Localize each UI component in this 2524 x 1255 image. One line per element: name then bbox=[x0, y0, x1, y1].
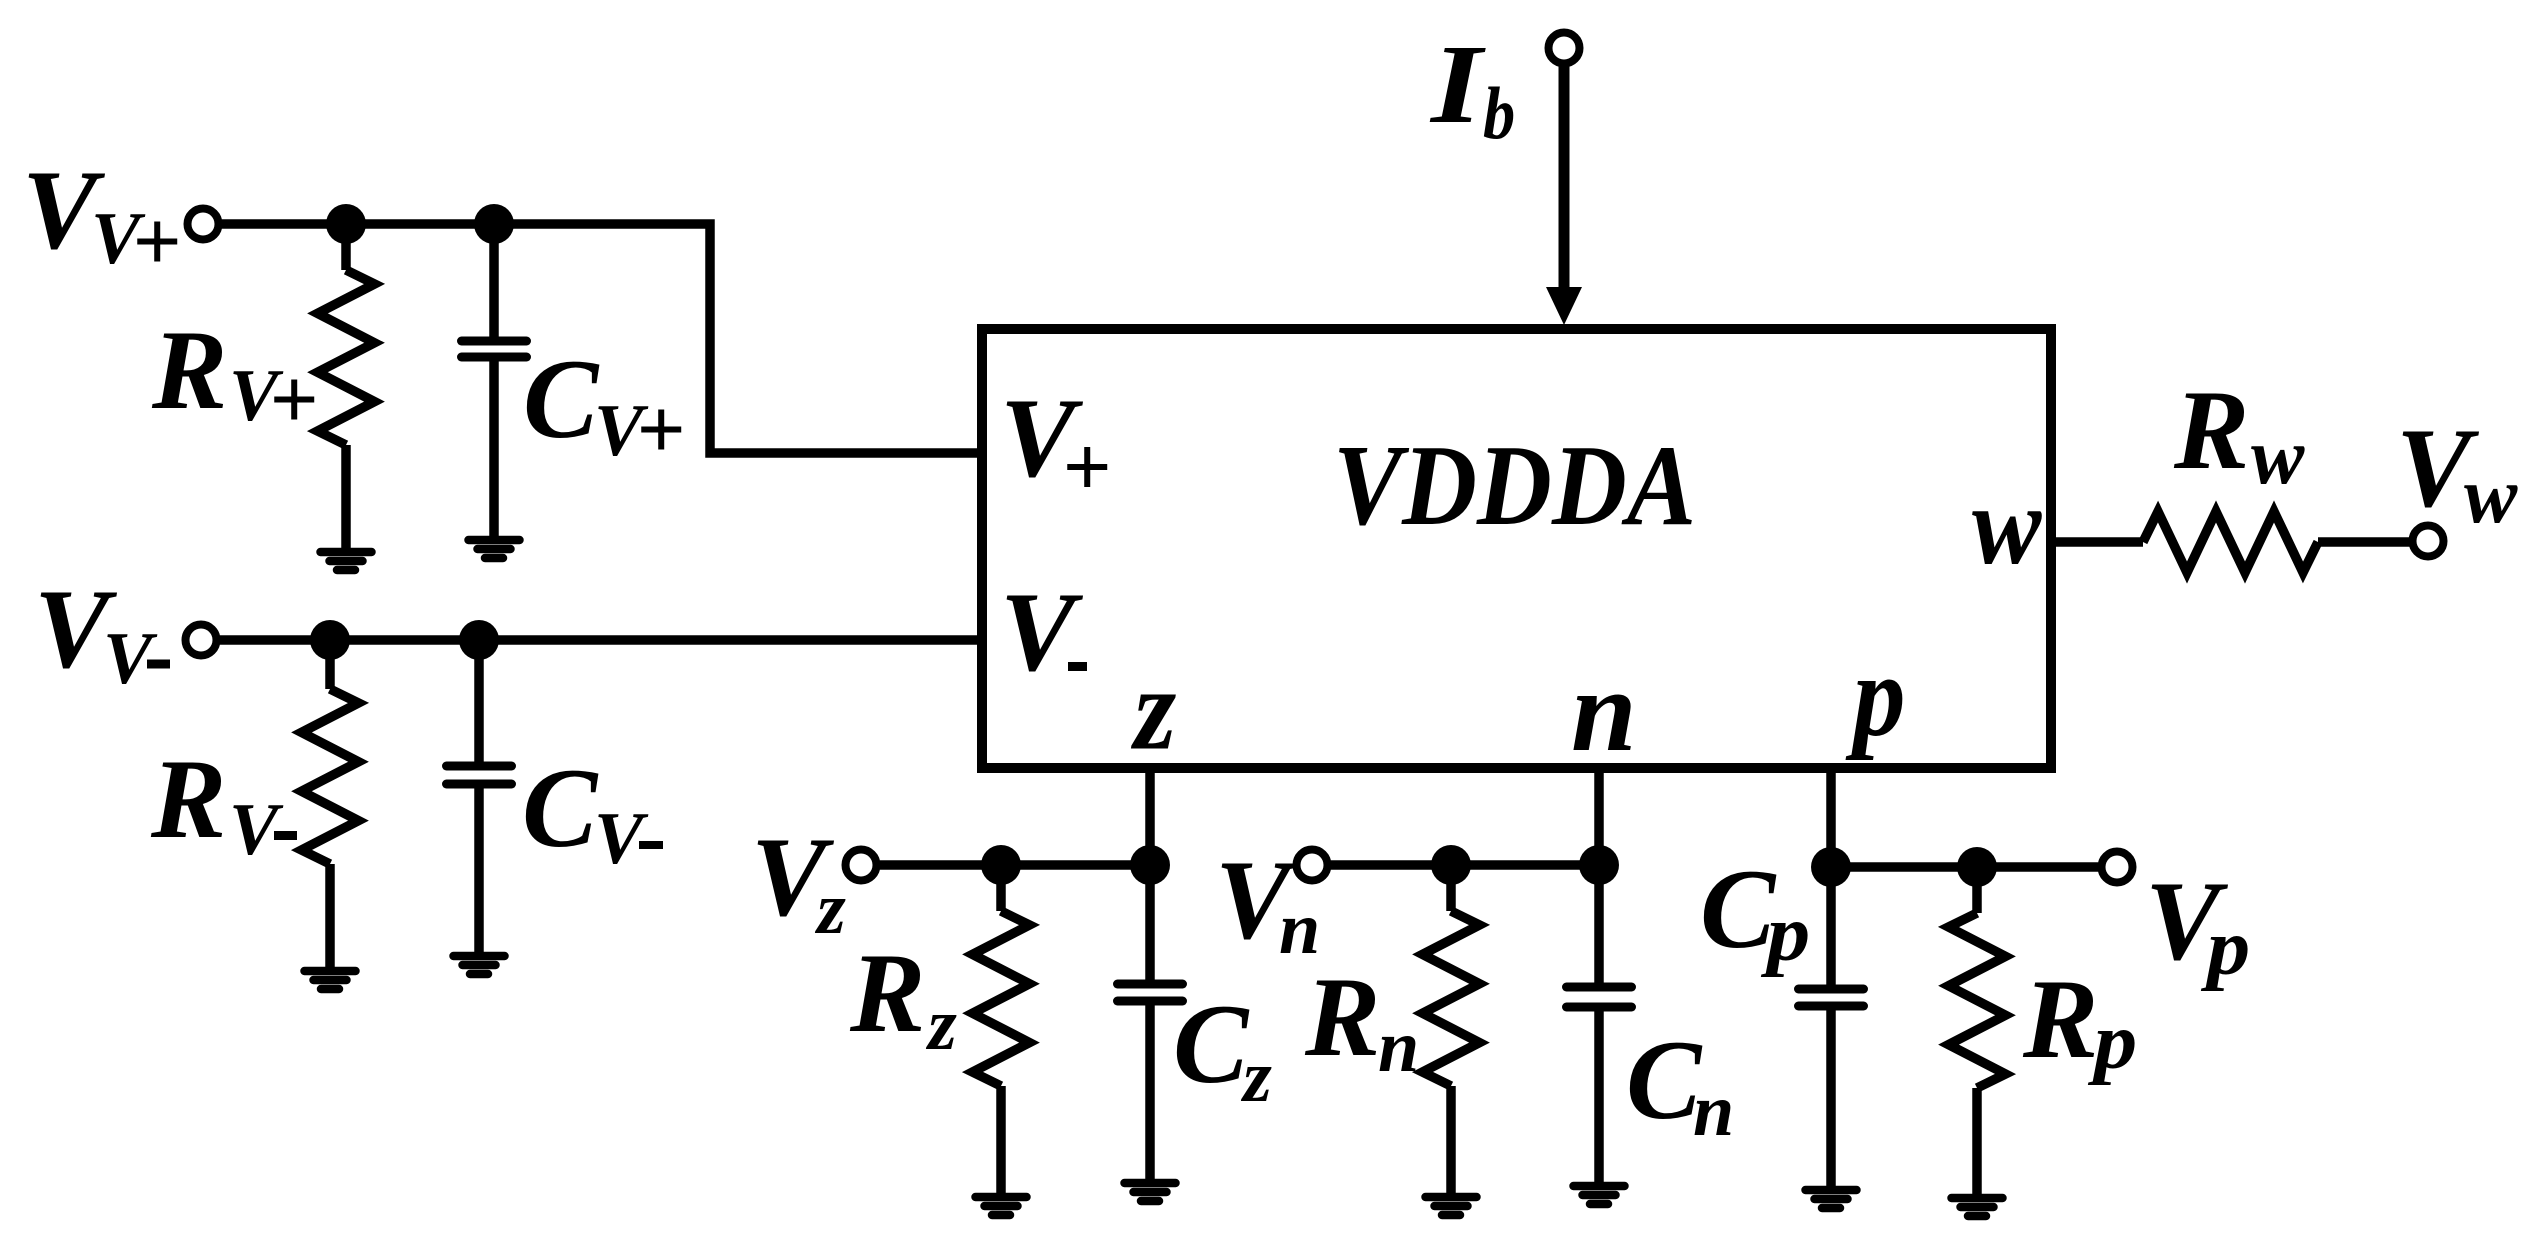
svg-text:z: z bbox=[814, 868, 846, 950]
resistor R_p bbox=[1972, 867, 1982, 913]
svg-text:+: + bbox=[269, 351, 318, 447]
wire: V_V+ input row, step down to V+ pin bbox=[222, 224, 987, 453]
ground under R_z bbox=[976, 1193, 1027, 1202]
svg-text:+: + bbox=[132, 193, 181, 289]
svg-text:C: C bbox=[523, 337, 600, 462]
svg-text:C: C bbox=[522, 746, 599, 871]
svg-text:V: V bbox=[1000, 570, 1084, 695]
wire: n pin down from box bbox=[1594, 763, 1604, 865]
wire: z pin down from box bbox=[1145, 763, 1155, 865]
svg-text:p: p bbox=[1761, 890, 1810, 978]
svg-text:R: R bbox=[849, 931, 925, 1056]
junction: z/R_z node bbox=[981, 845, 1021, 885]
junction: n/R_n node bbox=[1431, 845, 1471, 885]
ground under R_p bbox=[1952, 1194, 2003, 1203]
svg-text:p: p bbox=[2088, 998, 2137, 1086]
subscript dash of RVm label bbox=[274, 831, 297, 840]
junction: p/R_p node bbox=[1957, 847, 1997, 887]
ground under R_V- bbox=[305, 967, 356, 976]
svg-text:w: w bbox=[2464, 452, 2518, 540]
resistor R_V- bbox=[325, 640, 335, 689]
svg-text:+: + bbox=[636, 381, 685, 477]
svg-text:I: I bbox=[1429, 22, 1487, 147]
resistor R_V+ bbox=[341, 224, 351, 270]
wire: V_V- input row to V- pin bbox=[220, 635, 987, 645]
terminal V_n bbox=[1297, 850, 1328, 881]
ground under R_n bbox=[1426, 1193, 1477, 1202]
svg-text:n: n bbox=[1378, 1006, 1419, 1088]
svg-text:b: b bbox=[1483, 73, 1515, 155]
capacitor C_n bbox=[1594, 865, 1604, 987]
svg-text:R: R bbox=[1304, 955, 1380, 1080]
arrowhead of I_b bbox=[1546, 287, 1582, 325]
svg-text:C: C bbox=[1626, 1018, 1703, 1143]
svg-text:C: C bbox=[1700, 847, 1777, 972]
subscript dash of Vmin label bbox=[1068, 662, 1087, 671]
svg-text:z: z bbox=[1130, 643, 1176, 774]
svg-text:n: n bbox=[1571, 645, 1637, 776]
ground under C_n bbox=[1574, 1182, 1625, 1191]
svg-text:C: C bbox=[1173, 982, 1250, 1107]
svg-text:V: V bbox=[103, 618, 158, 700]
wire: p pin down from box bbox=[1826, 763, 1836, 867]
terminal V_z bbox=[846, 850, 877, 881]
wire: w output bbox=[2051, 537, 2143, 547]
svg-text:R: R bbox=[2173, 368, 2249, 493]
terminal V_V- bbox=[186, 625, 217, 656]
subscript dash of CVm label bbox=[639, 841, 663, 849]
ground under C_V+ bbox=[469, 536, 520, 545]
wire: p node row bbox=[1831, 862, 2098, 872]
current source I_b arrow into box bbox=[1559, 66, 1570, 292]
junction: z/C_z node bbox=[1130, 845, 1170, 885]
terminal V_w bbox=[2413, 526, 2444, 557]
junction: p/C_p node bbox=[1811, 847, 1851, 887]
capacitor C_z bbox=[1145, 865, 1155, 984]
ground under R_V+ bbox=[321, 548, 372, 557]
resistor R_w bbox=[2143, 512, 2318, 573]
junction: n/C_n node bbox=[1579, 845, 1619, 885]
VDDDA block box bbox=[982, 329, 2051, 768]
ground under C_V- bbox=[454, 952, 505, 961]
resistor R_n bbox=[1446, 865, 1456, 911]
svg-text:p: p bbox=[2201, 904, 2250, 992]
svg-text:R: R bbox=[2022, 957, 2098, 1082]
terminal I_b bbox=[1549, 33, 1580, 64]
svg-text:VDDDA: VDDDA bbox=[1333, 422, 1696, 550]
junction: V_V-/R_V- node bbox=[310, 620, 350, 660]
svg-text:z: z bbox=[1240, 1036, 1272, 1118]
capacitor C_p bbox=[1826, 867, 1836, 989]
junction: V_V-/C_V- node bbox=[459, 620, 499, 660]
svg-text:p: p bbox=[1845, 630, 1905, 761]
terminal V_V+ bbox=[188, 209, 219, 240]
svg-text:R: R bbox=[150, 737, 226, 862]
capacitor C_V+ bbox=[489, 224, 499, 341]
svg-text:z: z bbox=[925, 984, 957, 1066]
svg-text:w: w bbox=[2251, 413, 2305, 501]
svg-text:R: R bbox=[151, 308, 227, 433]
svg-text:V: V bbox=[229, 789, 284, 871]
svg-text:n: n bbox=[1693, 1070, 1734, 1152]
junction: V_V+/R_V+ node bbox=[326, 204, 366, 244]
subscript dash of VVm label bbox=[147, 660, 170, 669]
capacitor C_V- bbox=[474, 640, 484, 766]
svg-text:+: + bbox=[1062, 419, 1111, 515]
svg-text:V: V bbox=[594, 798, 649, 880]
wire: R_w to V_w terminal bbox=[2318, 537, 2410, 547]
junction: V_V+/C_V+ node bbox=[474, 204, 514, 244]
ground under C_p bbox=[1806, 1186, 1857, 1195]
wire: n node row bbox=[1331, 860, 1599, 870]
wire: z node row bbox=[880, 860, 1150, 870]
terminal V_p bbox=[2102, 852, 2133, 883]
resistor R_z bbox=[996, 865, 1006, 911]
svg-text:w: w bbox=[1972, 465, 2042, 588]
ground under C_z bbox=[1125, 1179, 1176, 1188]
